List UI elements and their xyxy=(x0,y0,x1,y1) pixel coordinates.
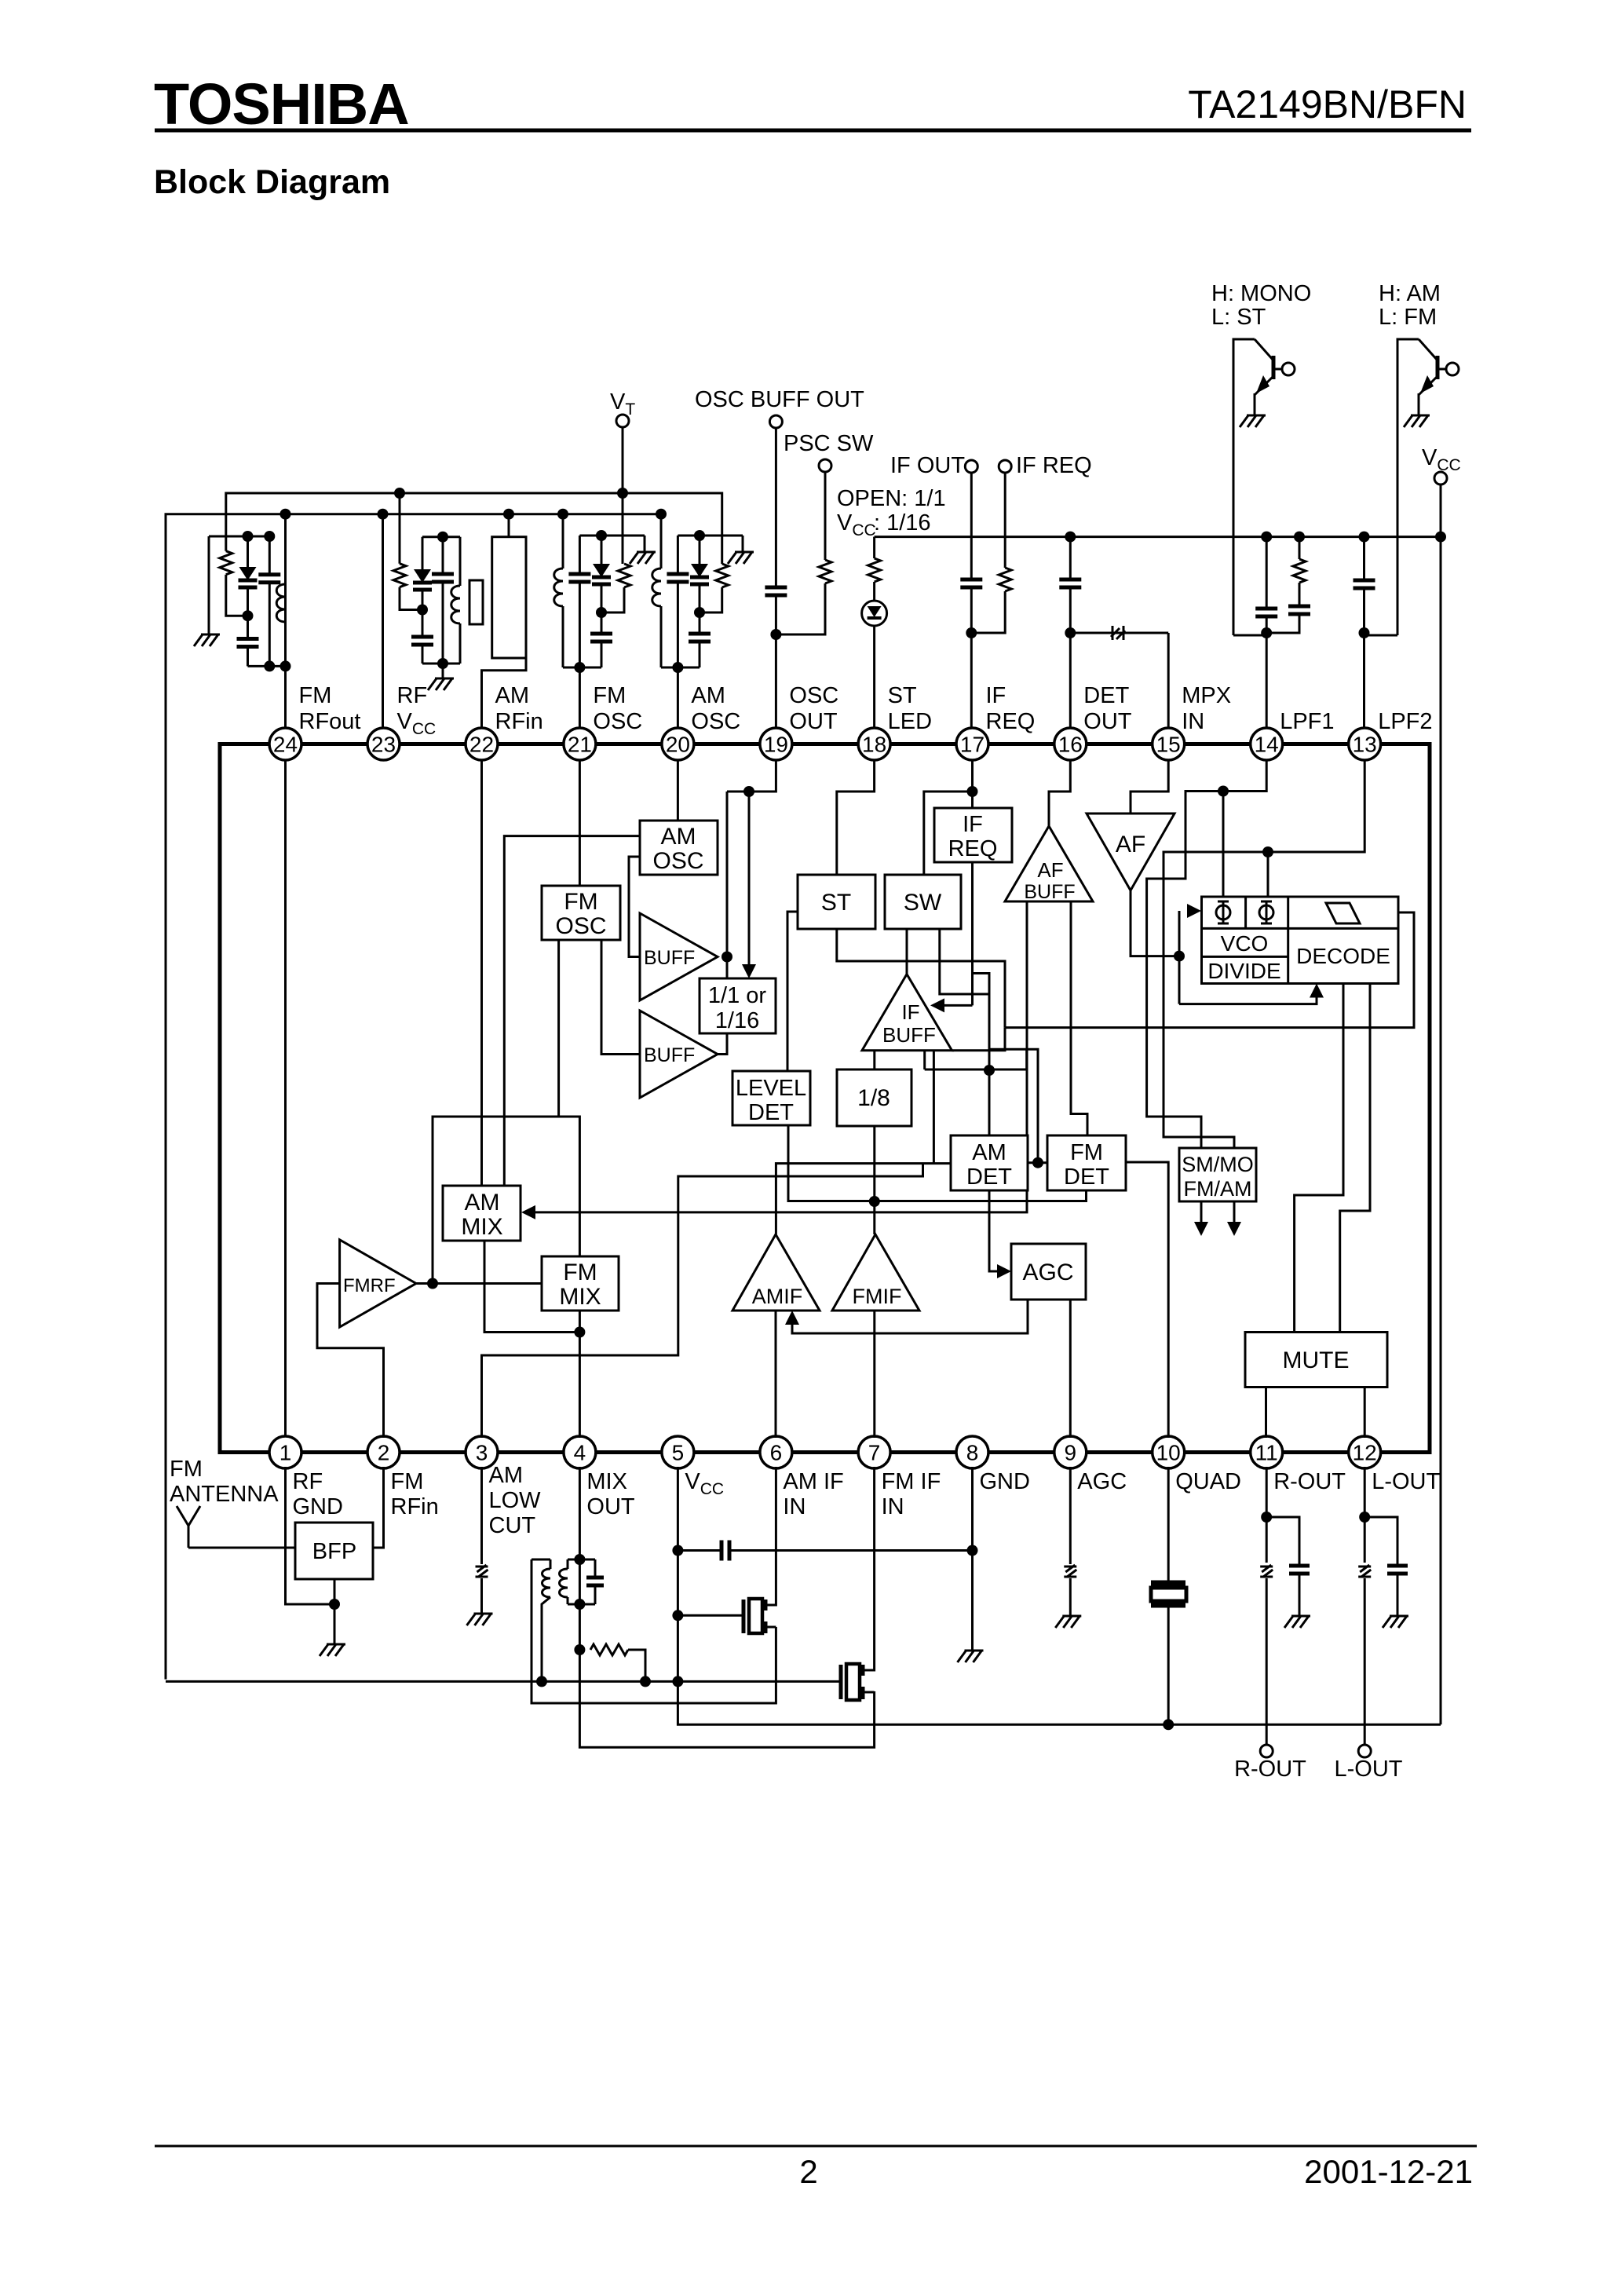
wire pin10 lead xyxy=(1167,1467,1170,1581)
svg-text:QUAD: QUAD xyxy=(1175,1469,1241,1494)
capacitor pin24 varactor xyxy=(247,536,249,567)
node OSC OUT / PSC xyxy=(770,629,781,640)
pin 16 xyxy=(1054,728,1087,760)
node SW det tap xyxy=(984,1065,995,1076)
svg-text:FM/AM: FM/AM xyxy=(1184,1177,1252,1201)
svg-text:LED: LED xyxy=(888,709,932,734)
wire IF BUFF out2 xyxy=(933,1051,935,1164)
wire pin21 top bar xyxy=(579,535,645,537)
wire pin24 to pin1 internal xyxy=(284,760,287,1436)
node bus res xyxy=(640,1676,651,1687)
svg-text:FM: FM xyxy=(1070,1140,1103,1165)
svg-text:H: AM: H: AM xyxy=(1379,281,1441,306)
svg-text:RF: RF xyxy=(397,683,428,708)
pin 13 xyxy=(1349,728,1381,760)
wire if buff det link xyxy=(925,1069,1027,1071)
wire AF BUFF out2 xyxy=(1071,901,1087,1135)
wire pin9 lead xyxy=(1069,1467,1072,1564)
wire AMDET-FMDET link xyxy=(1028,1161,1047,1164)
svg-text:VCO: VCO xyxy=(1221,931,1269,956)
node bus/pin21 coil xyxy=(557,509,568,520)
inductor xtal primary xyxy=(459,537,462,586)
wire pin1 down xyxy=(286,1467,335,1604)
inductor pin24 tank xyxy=(284,550,287,584)
svg-text:OSC: OSC xyxy=(555,913,606,939)
wire level det bus xyxy=(788,1125,1087,1201)
pin 9 xyxy=(1054,1436,1087,1468)
node pin20 mid xyxy=(694,607,705,618)
wire AM OSC to BUFF1 xyxy=(629,857,640,957)
svg-text:AM: AM xyxy=(691,683,725,708)
capacitor pin12 branch xyxy=(1364,1517,1397,1566)
pin 5 xyxy=(662,1436,694,1468)
resistor pin20 tank xyxy=(716,564,729,587)
capacitor pin23 tank xyxy=(442,537,444,574)
wire top rail y683 xyxy=(875,536,1441,538)
wire mix tank top bar xyxy=(532,1559,550,1561)
wire mix tank left xyxy=(532,1559,776,1703)
wire pin17 to IF REQ blk xyxy=(971,760,974,808)
antenna bar AM RFin xyxy=(508,514,510,537)
wire pin12 lead xyxy=(1364,1467,1366,1563)
svg-text:IF OUT: IF OUT xyxy=(890,453,965,478)
block FM DET xyxy=(1047,1135,1126,1190)
block AM DET xyxy=(951,1135,1028,1190)
node rail/LPF1b xyxy=(1294,532,1305,543)
footer rule xyxy=(155,2145,1477,2148)
pin 24 xyxy=(269,728,301,760)
svg-text:IF: IF xyxy=(986,683,1006,708)
wire AM DET to AGC xyxy=(989,1190,997,1271)
svg-text:13: 13 xyxy=(1353,733,1377,757)
pin 6 xyxy=(760,1436,792,1468)
pin 20 xyxy=(662,728,694,760)
wire pin3 lead xyxy=(480,1467,483,1564)
pin 1 xyxy=(269,1436,301,1468)
capacitor pin20 tank xyxy=(677,536,679,574)
inductor pin20 tank xyxy=(660,514,663,569)
node FMRF out xyxy=(427,1278,438,1289)
svg-text:AM: AM xyxy=(661,824,696,850)
node VT bus / VT lead xyxy=(617,488,628,499)
IC block frame xyxy=(220,744,1430,1453)
wire quad down xyxy=(1167,1605,1170,1724)
svg-text:ANTENNA: ANTENNA xyxy=(170,1482,279,1507)
svg-text:16: 16 xyxy=(1058,733,1083,757)
wire pin18 to ST xyxy=(837,760,875,875)
svg-text:FM: FM xyxy=(299,683,332,708)
wire AGC to pin9 xyxy=(1069,1300,1072,1438)
svg-text:2001-12-21: 2001-12-21 xyxy=(1304,2153,1473,2190)
terminal L-OUT xyxy=(1358,1745,1371,1757)
wire pin8 lead xyxy=(971,1467,974,1651)
svg-text:IN: IN xyxy=(783,1494,806,1519)
block MUTE xyxy=(1245,1333,1387,1387)
pin 22 xyxy=(466,728,498,760)
svg-text:MPX: MPX xyxy=(1182,683,1231,708)
inductor mix primary xyxy=(550,1559,552,1569)
svg-text:BUFF: BUFF xyxy=(644,1044,695,1066)
wire pin20 bottom bar xyxy=(661,667,700,669)
svg-text:Block Diagram: Block Diagram xyxy=(154,163,390,201)
node pin4 res node xyxy=(574,1644,585,1655)
node pin24 bottom a xyxy=(264,660,275,671)
svg-text:AGC: AGC xyxy=(1077,1469,1127,1494)
svg-text:IN: IN xyxy=(1182,709,1204,734)
wire AF to loop xyxy=(1131,890,1179,956)
svg-text:H: MONO: H: MONO xyxy=(1211,281,1311,306)
node bus/AM-RFin xyxy=(503,509,514,520)
block VCO DIVIDE DECODE xyxy=(1202,897,1399,984)
svg-text:TA2149BN/BFN: TA2149BN/BFN xyxy=(1188,82,1467,126)
wire pin14 to phi1 xyxy=(1147,760,1267,1148)
svg-text:DET: DET xyxy=(1064,1164,1109,1190)
svg-text:OSC: OSC xyxy=(593,709,642,734)
svg-text:11: 11 xyxy=(1255,1441,1278,1465)
discriminator QUAD xyxy=(1151,1581,1185,1586)
node IF pin17 xyxy=(966,627,977,638)
svg-text:21: 21 xyxy=(568,733,592,757)
wire pin5 lead xyxy=(677,1467,679,1681)
amplifier AF BUFF xyxy=(1005,826,1093,901)
svg-text:ST: ST xyxy=(821,890,851,916)
terminal IF OUT xyxy=(965,460,977,473)
svg-text:GND: GND xyxy=(980,1469,1030,1494)
svg-text:23: 23 xyxy=(371,733,396,757)
wire FM OSC to BUFF2 xyxy=(601,940,640,1055)
node pin24 bottom b xyxy=(269,665,285,667)
svg-text:ST: ST xyxy=(888,683,917,708)
ground pin21 tank xyxy=(644,536,646,552)
capacitor pin11 branch xyxy=(1266,1517,1299,1566)
svg-text:AGC: AGC xyxy=(1022,1260,1073,1285)
node pin23 cap top xyxy=(437,532,448,543)
node pin21 diode top xyxy=(596,530,607,541)
wire FM DET to pin10 xyxy=(1126,1162,1168,1438)
node bus/pin23 xyxy=(378,509,389,520)
svg-text:4: 4 xyxy=(574,1441,586,1465)
node quad vcc rail xyxy=(1163,1719,1174,1730)
wire vco loop xyxy=(1178,911,1181,1004)
wire pin23 bottom bar xyxy=(422,663,460,665)
coupling pin3 xyxy=(476,1565,488,1577)
pin 12 xyxy=(1349,1436,1381,1468)
wire pin2 to FMRF xyxy=(317,1284,384,1439)
wire vcc rail bottom xyxy=(678,1681,1441,1724)
transistor Q1 xyxy=(1233,339,1255,635)
wire pin4 return xyxy=(579,1650,874,1747)
wire pin16 to AF BUFF xyxy=(1049,760,1070,826)
wire pin12 out xyxy=(1364,1578,1366,1745)
svg-text:L: FM: L: FM xyxy=(1379,305,1437,330)
svg-text:OSC: OSC xyxy=(652,848,703,874)
wire det step xyxy=(989,1049,1038,1163)
wire pin23 tank top bar xyxy=(422,536,460,538)
wire VCC drop xyxy=(1440,484,1442,1724)
svg-text:1/8: 1/8 xyxy=(857,1085,890,1111)
svg-text:FMIF: FMIF xyxy=(853,1285,902,1308)
svg-text:MIX: MIX xyxy=(461,1214,502,1240)
wire top supply bus y655 xyxy=(166,514,662,1680)
ground pin3 xyxy=(480,1578,483,1614)
wire AM MIX down join xyxy=(484,1241,579,1333)
coupling pin9 xyxy=(1064,1565,1076,1577)
ground pin8 xyxy=(958,1651,984,1662)
wire Q2 collector to LPF2 xyxy=(1364,634,1398,637)
svg-text:REQ: REQ xyxy=(986,709,1036,734)
wire 1/8 to FMIF xyxy=(873,1126,875,1234)
coupling DET-MPX xyxy=(1070,632,1168,634)
wire FMIF to pin7 xyxy=(873,1311,875,1438)
svg-text:FM: FM xyxy=(563,1260,597,1285)
node pin23 bottom xyxy=(437,658,448,669)
svg-text:FMRF: FMRF xyxy=(343,1275,396,1296)
wire pin20 lead xyxy=(677,667,679,728)
svg-text:OSC BUFF OUT: OSC BUFF OUT xyxy=(695,387,864,412)
node rail/DET OUT xyxy=(1065,532,1076,543)
resistor mix out xyxy=(590,1644,628,1655)
svg-text:MIX: MIX xyxy=(586,1469,627,1494)
phase detector symbol 2 xyxy=(1259,905,1273,919)
svg-text:AF: AF xyxy=(1037,858,1063,882)
svg-text:FM: FM xyxy=(593,683,626,708)
svg-text:LEVEL: LEVEL xyxy=(736,1076,806,1101)
wire det link to AM MIX xyxy=(535,1191,1027,1212)
capacitor pin21 varactor xyxy=(601,536,603,564)
wire ST output xyxy=(837,929,1005,1028)
node rail/LPF1a xyxy=(1261,532,1272,543)
node pin12 branch xyxy=(1359,1512,1370,1523)
node pin5 reso xyxy=(672,1610,683,1621)
wire AMIF to AM DET xyxy=(776,1164,950,1234)
svg-text:OSC: OSC xyxy=(691,709,740,734)
pin 15 xyxy=(1153,728,1185,760)
node pin24 cap top xyxy=(264,531,275,542)
wire decode feedback xyxy=(1179,997,1317,1004)
node pin5 cap xyxy=(672,1545,683,1556)
amplifier BUFF2 xyxy=(640,1011,718,1098)
capacitor pin21 lower xyxy=(601,612,603,634)
wire IFREQ to det chain xyxy=(973,974,990,1136)
node BFP ground xyxy=(329,1599,340,1610)
svg-text:AF: AF xyxy=(1116,832,1145,857)
block ST xyxy=(798,875,875,929)
resistor PSC SW xyxy=(824,472,827,560)
svg-text:BUFF: BUFF xyxy=(644,947,695,969)
wire Q1 collector to LPF1 xyxy=(1233,634,1266,637)
svg-text:L-OUT: L-OUT xyxy=(1335,1757,1403,1782)
node bus pin5 xyxy=(672,1676,683,1687)
amplifier FMRF xyxy=(340,1240,416,1327)
node pin24 mid xyxy=(243,610,254,621)
node pin21 mid xyxy=(596,607,607,618)
svg-text:1/16: 1/16 xyxy=(715,1008,759,1033)
resistor ST LED xyxy=(873,537,875,558)
capacitor pin23 lower xyxy=(422,610,424,638)
svg-text:AM: AM xyxy=(465,1190,500,1216)
svg-text:LOW: LOW xyxy=(489,1488,542,1513)
amplifier BUFF1 xyxy=(640,913,718,1000)
terminal VT xyxy=(616,415,629,427)
pin 11 xyxy=(1251,1436,1283,1468)
node bus/pin20 coil xyxy=(656,509,667,520)
svg-text:AMIF: AMIF xyxy=(752,1285,803,1308)
wire pin22 jog xyxy=(482,658,527,728)
node phi2 tap xyxy=(1262,846,1273,857)
wire FM OSC to FM MIX xyxy=(559,940,580,1256)
wire VT bus xyxy=(226,493,722,564)
svg-text:LPF1: LPF1 xyxy=(1280,709,1334,734)
wire FMRF out xyxy=(416,1282,542,1285)
svg-text:20: 20 xyxy=(666,733,690,757)
pin 10 xyxy=(1153,1436,1185,1468)
svg-text:6: 6 xyxy=(770,1441,783,1465)
resistor IF REQ xyxy=(1004,473,1006,568)
terminal PSC SW xyxy=(819,459,831,472)
wire MUTE to pin12 xyxy=(1364,1387,1366,1439)
wire pin20 to AM OSC xyxy=(677,760,679,821)
wire IF BUFF to 1/8 xyxy=(873,1051,875,1069)
svg-text:FM IF: FM IF xyxy=(882,1469,941,1494)
wire pin21 lead xyxy=(579,667,581,728)
svg-text:OUT: OUT xyxy=(586,1494,635,1519)
ground pin9 xyxy=(1069,1578,1072,1616)
svg-text:24: 24 xyxy=(273,733,298,757)
pin 19 xyxy=(760,728,792,760)
svg-text:FM: FM xyxy=(564,889,597,915)
svg-text:IN: IN xyxy=(882,1494,904,1519)
svg-text:8: 8 xyxy=(966,1441,979,1465)
pin 7 xyxy=(858,1436,890,1468)
wire phi2 drop xyxy=(1267,852,1269,897)
wire SW right out xyxy=(940,929,989,994)
resonator AM IF xyxy=(742,1600,746,1633)
pin 18 xyxy=(858,728,890,760)
pin 3 xyxy=(466,1436,498,1468)
wire gnd bus bottom xyxy=(166,1680,841,1683)
svg-text:DET: DET xyxy=(966,1164,1012,1190)
svg-text:REQ: REQ xyxy=(948,836,998,861)
svg-text:RFin: RFin xyxy=(391,1494,439,1519)
wire pin20 top bar xyxy=(678,535,743,537)
svg-text:BUFF: BUFF xyxy=(1024,881,1075,903)
svg-text:1: 1 xyxy=(279,1441,292,1465)
block BFP xyxy=(295,1523,373,1579)
svg-text:14: 14 xyxy=(1255,733,1279,757)
pin 14 xyxy=(1251,728,1283,760)
amplifier IF BUFF xyxy=(862,974,952,1051)
wire pin2 to BFP xyxy=(373,1467,384,1548)
node rail/LPF2 xyxy=(1359,532,1370,543)
coupling pin12 xyxy=(1358,1565,1371,1577)
svg-text:15: 15 xyxy=(1156,733,1181,757)
wire BUFF2 to divider xyxy=(718,1033,727,1055)
wire LPF1 to pin14 xyxy=(1266,633,1268,728)
svg-text:2: 2 xyxy=(799,2153,817,2190)
wire pin24 lead xyxy=(284,514,287,728)
arrow SM/MO out1 xyxy=(1200,1201,1203,1222)
wire pin21 bottom bar xyxy=(563,667,601,669)
wire AMIF to pin6 xyxy=(775,1311,777,1438)
wire pin3 riser xyxy=(482,1164,923,1438)
node pin17 branch xyxy=(967,786,978,797)
svg-text:GND: GND xyxy=(293,1494,343,1519)
wire decode out2 to MUTE xyxy=(1340,984,1370,1333)
svg-text:17: 17 xyxy=(960,733,985,757)
wire decode out1 to MUTE xyxy=(1295,984,1343,1333)
node pin11 branch xyxy=(1261,1512,1272,1523)
svg-text:OPEN: 1/1: OPEN: 1/1 xyxy=(837,486,946,511)
svg-text:DECODE: DECODE xyxy=(1296,944,1390,968)
pin 21 xyxy=(564,728,596,760)
wire ST to LEVEL DET xyxy=(787,912,798,1071)
capacitor pin23 varactor xyxy=(422,537,424,569)
coupling pin11 xyxy=(1260,1565,1273,1577)
node osc buff tap xyxy=(743,786,754,797)
svg-text:OSC: OSC xyxy=(789,683,838,708)
block AM OSC xyxy=(640,821,718,875)
capacitor pin20 lower xyxy=(699,612,701,634)
svg-text:18: 18 xyxy=(862,733,886,757)
block AGC xyxy=(1011,1244,1086,1300)
wire AM OSC to AM MIX xyxy=(504,836,640,1186)
svg-text:10: 10 xyxy=(1156,1441,1181,1465)
wire pin4 lead xyxy=(579,1467,581,1650)
pin 4 xyxy=(564,1436,596,1468)
svg-text:LPF2: LPF2 xyxy=(1378,709,1432,734)
svg-text:22: 22 xyxy=(469,733,494,757)
svg-text:12: 12 xyxy=(1353,1441,1377,1465)
node phi1 tap xyxy=(1218,786,1229,797)
node pin8 gnd xyxy=(967,1545,978,1556)
svg-text:IF: IF xyxy=(901,1000,919,1024)
capacitor OSC OUT xyxy=(775,428,777,587)
wire decode bus xyxy=(952,1028,1006,1051)
svg-text:AM: AM xyxy=(972,1140,1006,1165)
svg-text:AM IF: AM IF xyxy=(783,1469,843,1494)
capacitor pin5-6 xyxy=(678,1549,721,1552)
wire pin24 tank top bar xyxy=(209,536,269,538)
amplifier AMIF xyxy=(732,1234,820,1311)
header rule xyxy=(155,129,1471,133)
block FM MIX xyxy=(542,1256,619,1311)
svg-text:FM: FM xyxy=(391,1469,424,1494)
capacitor mix tank xyxy=(579,1559,595,1561)
svg-text:IF: IF xyxy=(963,812,983,837)
node mix join xyxy=(574,1327,585,1338)
pin 8 xyxy=(956,1436,988,1468)
svg-text:9: 9 xyxy=(1065,1441,1077,1465)
inductor xtal secondary xyxy=(491,537,494,586)
node pin20 bottom xyxy=(672,662,683,673)
block SM/MO FM/AM xyxy=(1179,1148,1256,1201)
LED ST xyxy=(862,601,887,626)
ground BFP xyxy=(334,1604,336,1644)
svg-text:FM: FM xyxy=(170,1457,203,1482)
svg-text:SW: SW xyxy=(904,890,942,916)
node pin20 diode top xyxy=(694,530,705,541)
crystal filter pin23 xyxy=(469,580,483,624)
terminal R-OUT xyxy=(1260,1745,1273,1757)
wire pin15 to AF xyxy=(1131,760,1168,813)
svg-text:OUT: OUT xyxy=(789,709,838,734)
svg-text:MIX: MIX xyxy=(559,1284,601,1310)
block 1/8 xyxy=(837,1069,911,1126)
node LPF1 xyxy=(1261,627,1272,638)
block SW xyxy=(885,875,961,929)
wire pin15 lead xyxy=(1167,633,1170,728)
node LPF2 xyxy=(1359,627,1370,638)
